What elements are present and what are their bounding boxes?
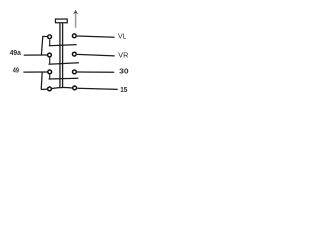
wire VL	[77, 36, 115, 37]
slider rail right	[62, 23, 64, 88]
wire 49 lead-in	[23, 71, 47, 73]
bridge stub C	[49, 75, 51, 79]
wire 49 bottom branch	[41, 88, 47, 90]
wire 49a bracket bar	[41, 36, 42, 55]
bridge stub A	[49, 40, 51, 46]
svg-text:VL: VL	[118, 31, 127, 40]
bridge stub B	[49, 58, 51, 64]
slider rail left	[59, 23, 61, 88]
svg-text:49: 49	[13, 67, 19, 74]
wire 49a lead-in	[24, 54, 47, 56]
bridge contact line B (rows 2-3)	[49, 63, 79, 64]
wire 49a top branch	[42, 35, 47, 37]
switch schematic: pull switch with terminals 49a, 49, VL, VR, 30, 15	[0, 0, 140, 150]
svg-text:15: 15	[120, 85, 127, 94]
wire 15	[77, 88, 118, 89]
svg-text:VR: VR	[118, 51, 128, 60]
contact circle VR (row 2)	[72, 52, 76, 56]
svg-text:30: 30	[119, 67, 129, 76]
contact circle 49a upper (row 1)	[48, 35, 52, 39]
contact circle 49a lower (row 2)	[48, 53, 52, 57]
contact circle 49 upper (row 3)	[48, 70, 52, 74]
wire row 4 cross segment	[52, 87, 72, 90]
actuator cap (plunger button)	[55, 19, 67, 23]
bridge contact line C (rows 3-4)	[49, 77, 79, 80]
contact circle row 4 left	[48, 87, 52, 91]
wire VR	[77, 54, 115, 56]
contact circle 30 (row 3)	[73, 70, 77, 74]
svg-text:49a: 49a	[10, 50, 21, 57]
contact circle 15 (row 4 right)	[73, 86, 77, 90]
bridge contact line A (rows 1-2)	[49, 45, 77, 46]
wire 49 bracket bar	[41, 72, 42, 89]
actuation arrow (pull direction)	[75, 13, 77, 28]
contact circle VL (row 1)	[72, 34, 76, 38]
wire 30	[77, 71, 114, 73]
